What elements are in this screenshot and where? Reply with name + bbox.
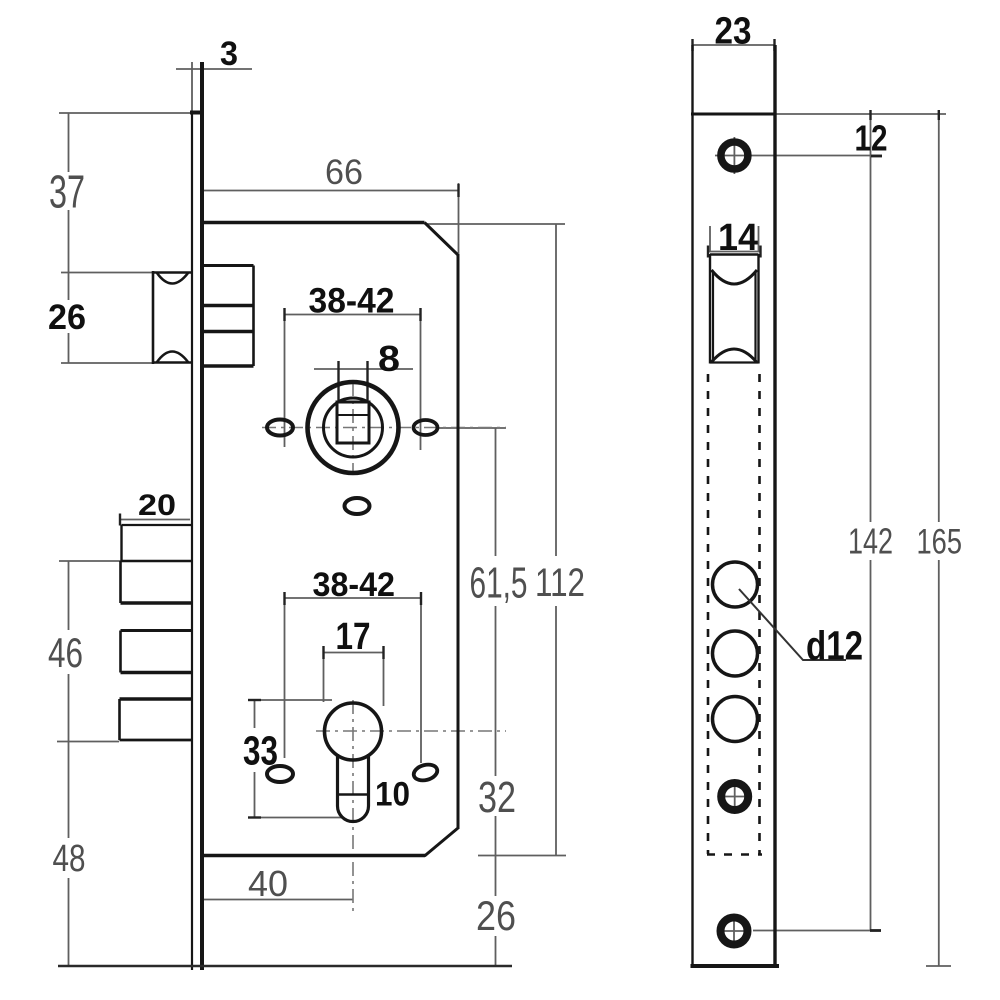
svg-text:d12: d12 (806, 623, 863, 669)
svg-text:61,5: 61,5 (470, 559, 528, 608)
svg-text:3: 3 (220, 35, 238, 73)
svg-text:33: 33 (243, 728, 278, 774)
svg-text:23: 23 (715, 11, 752, 53)
svg-text:112: 112 (535, 561, 585, 605)
svg-text:8: 8 (378, 338, 400, 379)
svg-text:46: 46 (48, 629, 83, 676)
svg-text:38-42: 38-42 (309, 282, 395, 321)
svg-text:37: 37 (49, 166, 85, 218)
svg-text:10: 10 (375, 776, 410, 814)
svg-text:48: 48 (53, 838, 86, 880)
svg-text:12: 12 (855, 118, 888, 159)
svg-text:165: 165 (917, 523, 963, 562)
svg-text:17: 17 (336, 616, 371, 658)
svg-text:66: 66 (325, 153, 363, 192)
svg-text:142: 142 (848, 521, 893, 562)
svg-text:26: 26 (48, 298, 86, 337)
svg-text:14: 14 (718, 217, 758, 259)
svg-text:40: 40 (248, 863, 288, 904)
svg-text:38-42: 38-42 (313, 566, 396, 604)
svg-text:32: 32 (478, 773, 516, 822)
svg-text:26: 26 (476, 892, 516, 939)
svg-text:20: 20 (138, 489, 176, 522)
